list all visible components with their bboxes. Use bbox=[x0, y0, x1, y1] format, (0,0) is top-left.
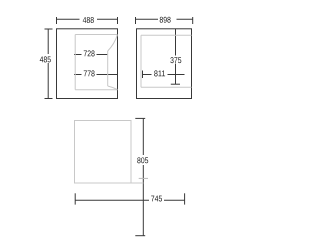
dimension 488 line left segment bbox=[57, 18, 80, 20]
dimension 488 line right segment bbox=[97, 18, 118, 20]
box A door edge line (faint) bbox=[107, 51, 109, 86]
dimension 805 top tick bbox=[135, 117, 145, 119]
box A (left rectangle, top view) bbox=[57, 29, 118, 99]
label 898 bbox=[160, 17, 171, 23]
label 745 bbox=[151, 196, 162, 202]
dimension 485 bottom tick bbox=[45, 98, 53, 100]
inner line 778 right segment bbox=[97, 74, 118, 76]
label 728 bbox=[84, 50, 95, 56]
dimension 898 right tick bbox=[192, 17, 194, 24]
label 805 bbox=[137, 157, 148, 163]
dimension 805 middle tick bbox=[139, 177, 148, 179]
dimension 745 line right segment bbox=[164, 199, 185, 201]
front-view bottom edge extension (faint) bbox=[131, 182, 143, 184]
front-view body outline (faint rectangle) bbox=[75, 121, 132, 184]
dimension 375 vertical line bottom segment bbox=[175, 64, 177, 85]
inner line 728 right segment bbox=[97, 54, 108, 56]
box A door upper corner arc (faint) bbox=[108, 35, 118, 51]
dimension 375 bottom tick bbox=[171, 83, 180, 85]
inner line 778 left segment bbox=[74, 74, 82, 76]
dimension 805 vertical line upper segment bbox=[142, 118, 144, 155]
dimension 898 left tick bbox=[135, 17, 137, 24]
dimension 898 line right segment bbox=[177, 18, 193, 20]
dimension 485 top tick bbox=[45, 28, 53, 30]
dimension 488 left tick bbox=[56, 17, 58, 24]
label 485 bbox=[40, 56, 51, 62]
line 811 left segment bbox=[143, 74, 152, 76]
box A inner bottom line (faint) bbox=[75, 89, 117, 91]
box B inner top line (faint) bbox=[141, 34, 192, 36]
line 811 left tick bbox=[142, 71, 144, 79]
box B inner bottom line (faint) bbox=[141, 86, 192, 88]
box A inner top line (faint) bbox=[75, 34, 117, 36]
dimension 485 line bottom segment bbox=[47, 63, 49, 99]
dimension 488 right tick bbox=[117, 17, 119, 24]
dimension 805 vertical line lower segment bbox=[142, 165, 144, 236]
line 811 right segment bbox=[168, 74, 185, 76]
dimension 485 line top segment bbox=[47, 29, 49, 54]
dimension 745 left tick bbox=[74, 193, 76, 204]
box A inner left line (faint) bbox=[74, 35, 76, 90]
inner line 728 left segment bbox=[74, 54, 82, 56]
dimension 745 right tick bbox=[184, 193, 186, 204]
dimension 898 line left segment bbox=[136, 18, 159, 20]
box B (right rectangle, top view) bbox=[137, 29, 192, 99]
dimension 745 line left segment bbox=[75, 199, 149, 201]
dimension 805 bottom tick bbox=[135, 235, 145, 237]
dimension 375 vertical line top segment bbox=[175, 29, 177, 56]
label 778 bbox=[84, 70, 95, 76]
box B inner left line (faint) bbox=[140, 35, 142, 87]
box A door lower corner arc (faint) bbox=[108, 86, 118, 90]
label 488 bbox=[83, 17, 94, 23]
label 811 bbox=[154, 70, 165, 76]
label 375 bbox=[170, 57, 181, 63]
